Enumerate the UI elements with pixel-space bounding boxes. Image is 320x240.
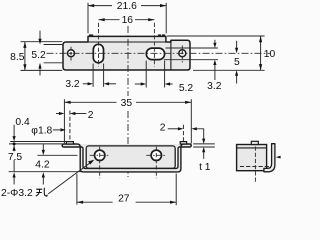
svg-text:2-Φ3.2: 2-Φ3.2 (1, 188, 33, 199)
3.2 right arrows (outside) (213, 43, 216, 48)
2 right arrows (outside) (178, 127, 184, 130)
dim 5.2 middle extension lines (145, 61, 147, 88)
dim 0.4 arrow stem (13, 125, 15, 137)
bottom bar top edge (85, 167, 176, 169)
2 left arrows (outside) (59, 112, 65, 115)
left inner bend (82, 147, 85, 168)
right round hole (179, 50, 186, 57)
svg-text:8.5: 8.5 (10, 52, 25, 63)
svg-text:10: 10 (264, 49, 276, 60)
svg-text:16: 16 (122, 15, 134, 26)
16 arrows (99, 18, 105, 21)
3.2 left arrows (outside) (88, 82, 94, 85)
27 arrows (77, 201, 83, 204)
dim 5 arrow stems (236, 41, 238, 49)
t1 arrows (outside) (202, 139, 205, 144)
svg-text:5.2: 5.2 (31, 50, 46, 61)
right bump centerline dashed (182, 125, 184, 142)
end view hook (bent edge) (264, 144, 275, 172)
dim 2 left arrow tails (56, 113, 60, 115)
svg-text:35: 35 (121, 98, 133, 109)
horizontal oval slot (146, 48, 164, 60)
left lip outline (62, 144, 82, 147)
protrusion bump right (top view) (158, 34, 161, 36)
5.2 left arrows (outside) (38, 39, 41, 45)
svg-text:5.2: 5.2 (179, 83, 194, 94)
left bump centerline dashed (69, 111, 71, 142)
web block with mounting holes (86, 146, 175, 169)
dim 16 line (99, 19, 120, 21)
dim 3.2 left arrow tails (83, 83, 89, 85)
dim t1 lower arrow stem (203, 152, 205, 159)
right boss left edge (170, 41, 172, 70)
dim 5.2 left arrow stems (39, 31, 41, 40)
bracket strip outline (62, 144, 191, 172)
dim 21.6 extension lines (87, 3, 89, 34)
21.6 arrows (88, 4, 94, 7)
svg-text:7.5: 7.5 (8, 152, 23, 163)
small pointer arrow at hook (276, 156, 281, 159)
svg-text:5: 5 (234, 57, 240, 68)
rib top extension line (right) (167, 35, 265, 37)
arrowheads bottom view (13, 101, 206, 204)
oval centerline dashed (right, also ext of dim 16) (153, 23, 155, 67)
35 arrows (64, 101, 70, 104)
phi1.8 leader (53, 129, 61, 131)
vertical slot (93, 44, 103, 63)
svg-text:2: 2 (160, 122, 166, 133)
bend line under raised rib (88, 41, 171, 43)
horizontal centerline of top view (47, 52, 271, 54)
left round hole (68, 50, 75, 57)
svg-text:2: 2 (88, 110, 94, 121)
svg-text:4.2: 4.2 (35, 160, 50, 171)
leader line 2-phi3.2 holes (48, 162, 91, 194)
dim 27 extension lines (76, 174, 78, 205)
dim 35 line (64, 101, 116, 103)
lip top extension line (9, 143, 62, 145)
plate bottom extension line (right) (193, 69, 265, 71)
arrowheads top view (23, 4, 262, 86)
end view lip underside line (237, 147, 267, 149)
bump top extension line (10, 141, 66, 143)
right lip outline (179, 144, 191, 147)
8.5 arrows (23, 42, 26, 48)
0.4 reference dot (13, 142, 16, 145)
svg-text:φ1.8: φ1.8 (31, 125, 52, 136)
end view vertical centerline dashed (254, 147, 256, 184)
dimension texts top view (10, 1, 275, 94)
dim 8.5 line (24, 42, 26, 71)
svg-text:0.4: 0.4 (15, 117, 30, 128)
svg-text:21.6: 21.6 (117, 1, 137, 12)
right mounting hole (151, 150, 161, 160)
5 arrows (outside) (235, 48, 238, 54)
bracket strip silhouette fill (62, 144, 191, 172)
dim 35 extension lines (63, 99, 65, 143)
svg-text:3.2: 3.2 (207, 81, 222, 92)
dim 3.2 right arrow stems (214, 40, 216, 44)
svg-text:27: 27 (118, 193, 130, 204)
hole crosshairs (90, 147, 167, 179)
end view body (237, 145, 267, 171)
leader arrowhead (88, 160, 94, 165)
svg-text:t 1: t 1 (199, 162, 211, 173)
dimension texts bottom view (1, 98, 211, 204)
dim t1 extension lines (193, 143, 215, 145)
left outer bend (77, 144, 83, 172)
dim 21.6 line (88, 5, 112, 7)
right hole vertical dashes (181, 46, 183, 63)
dim 4.2 stems (42, 144, 44, 150)
dim 2 right arrow tails (168, 128, 179, 130)
4.2 arrows (42, 150, 45, 155)
oval height extension lines (166, 47, 218, 49)
dim 3.2 left extension lines (92, 64, 94, 87)
7.5 arrows (13, 145, 16, 151)
left hole vertical dashes (70, 47, 72, 63)
10 arrows (259, 36, 262, 42)
end view horizontal dashed line (240, 166, 270, 168)
protrusion bump right (front view) (180, 142, 186, 144)
svg-text:3.2: 3.2 (65, 79, 80, 90)
bottom bar bottom edge (83, 171, 178, 173)
vertical center axis of drawing (127, 26, 129, 96)
right inner bend (176, 147, 179, 168)
dim 5.2 middle arrow tails (135, 83, 142, 85)
dim 5.2 left extension lines (44, 44, 63, 46)
dim 10 line (260, 36, 262, 70)
protrusion bump left (top view) (89, 34, 93, 36)
circles centerline extension (dim 4.2) (37, 154, 77, 156)
plate body (plan view) (63, 36, 190, 70)
dim 27 line (77, 201, 113, 203)
right outer bend (178, 144, 184, 172)
0.4 arrow (13, 136, 16, 141)
kanji 'hole' glyph (drawn) (36, 188, 47, 196)
left mounting hole (95, 150, 105, 160)
dim 7.5 line (13, 145, 15, 151)
protrusion bump left (front view) (66, 142, 73, 144)
end view bump (251, 141, 258, 144)
dim 8.5 extension lines (21, 41, 63, 43)
5.2 middle arrows (outside) (141, 82, 147, 85)
bracket bottom extension line (left) (9, 171, 81, 173)
slot centerline dashed (left, also ext of dim 16) (98, 23, 100, 67)
